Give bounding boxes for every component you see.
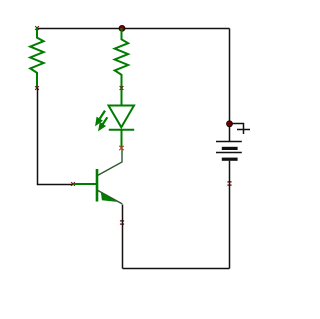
wire: top rail from R1 top to battery branch [37, 28, 230, 30]
LED anode lead [121, 88, 123, 106]
wire: horizontal to transistor base [37, 184, 73, 186]
battery bottom lead [229, 161, 231, 182]
pin marker: R1 top pin x [35, 26, 39, 30]
Q1 emitter [98, 190, 123, 204]
resistor R1 [30, 28, 43, 88]
wire: left vertical from R1 bottom down to base level [37, 88, 39, 185]
transistor Q1 [73, 149, 122, 204]
LED triangle [109, 106, 135, 128]
pin marker: Q1 base pin x [71, 182, 75, 186]
pin marker: R1 bottom pin x [35, 86, 39, 90]
pin marker: Q1 emitter pin x (double) [120, 221, 124, 224]
Q1 emitter arrowhead [101, 192, 117, 202]
wire: bottom rail [123, 268, 230, 270]
wire: right vertical from top rail down to battery + node [229, 29, 231, 124]
node: battery + junction dot [227, 121, 233, 127]
battery plate short thick (-) [222, 158, 238, 161]
LED cathode bar [109, 129, 134, 131]
battery plate long (+) [216, 141, 242, 143]
resistor R2 [115, 28, 128, 88]
node: top junction dot [119, 26, 125, 32]
battery B1 [216, 126, 242, 182]
LED cathode lead [121, 130, 123, 148]
label: plus sign [237, 129, 250, 131]
LED light arrow 2 [99, 117, 107, 130]
Q1 base bar [96, 169, 99, 202]
pin marker: LED cathode / Q1 collector x [119, 146, 123, 150]
battery top lead [229, 126, 231, 142]
wire: stub to + annotation [229, 124, 244, 135]
battery plate short thick (-) [222, 147, 238, 150]
Q1 collector [98, 149, 123, 176]
wire: right vertical from battery down to bottom rail [229, 181, 231, 269]
battery plate long (+) [216, 152, 242, 154]
pin marker: R2/LED junction x [120, 86, 124, 90]
wire: emitter vertical down to bottom rail [122, 205, 124, 269]
LED D1 [109, 88, 135, 148]
LED light arrow 1 [96, 111, 105, 125]
pin marker: battery bottom pin x (double) [227, 182, 231, 185]
Q1 base lead [73, 183, 96, 185]
